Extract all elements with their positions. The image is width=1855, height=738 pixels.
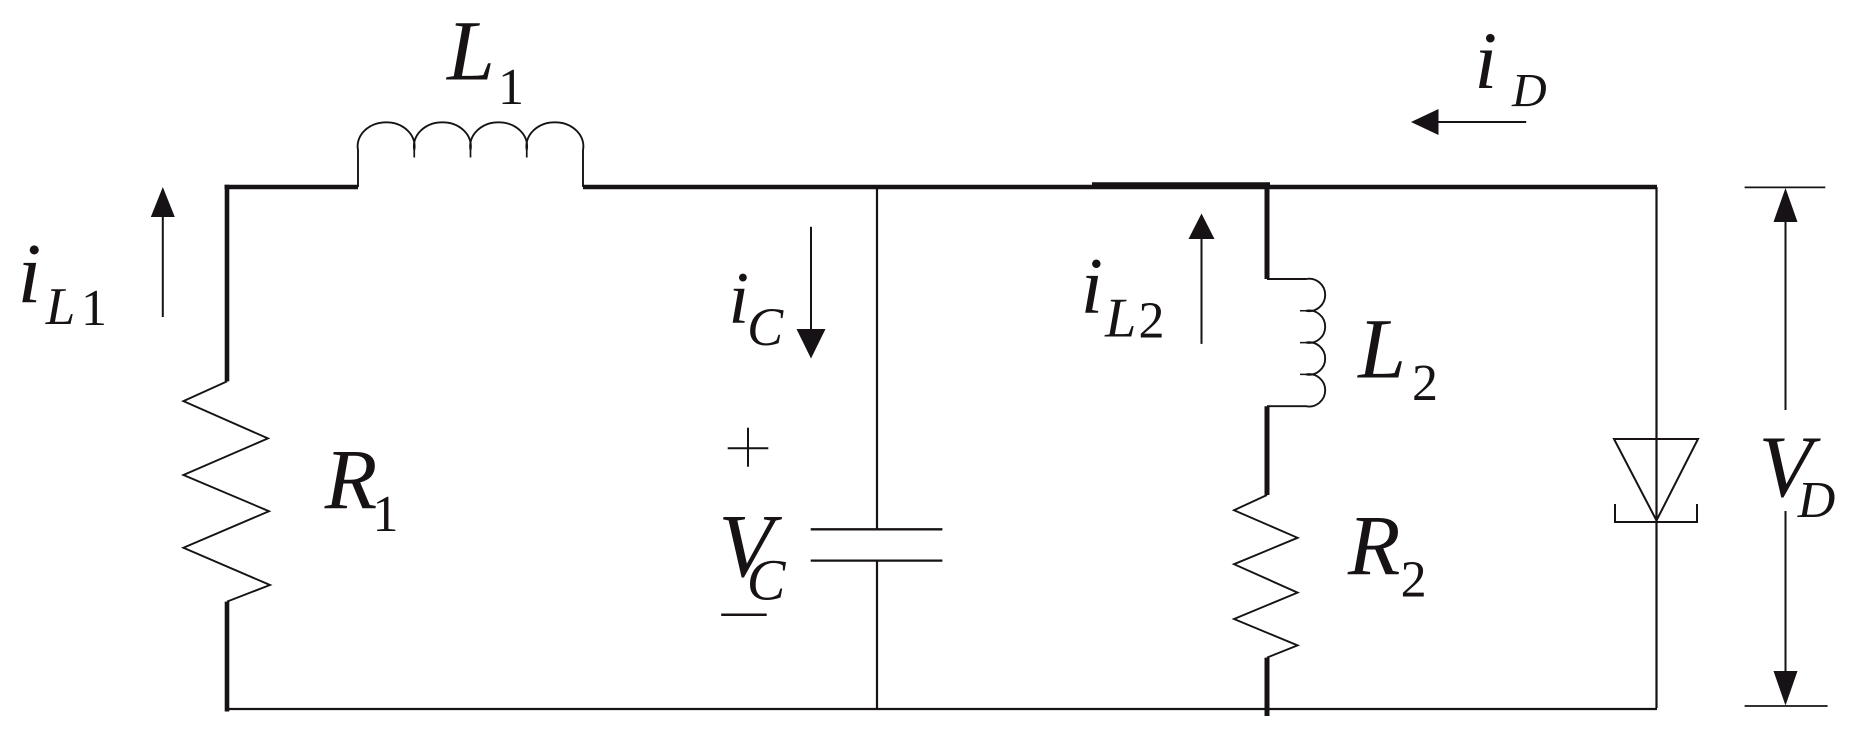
svg-text:1: 1: [498, 59, 524, 116]
svg-text:i: i: [18, 226, 42, 322]
svg-text:C: C: [747, 297, 784, 357]
svg-text:i: i: [729, 258, 750, 340]
svg-text:L: L: [1104, 287, 1136, 349]
svg-text:1: 1: [373, 486, 399, 543]
svg-text:D: D: [1797, 472, 1836, 529]
svg-text:i: i: [1081, 243, 1103, 331]
svg-text:C: C: [747, 548, 787, 613]
svg-text:R: R: [324, 431, 378, 527]
svg-text:D: D: [1511, 65, 1547, 118]
svg-text:L: L: [1356, 300, 1406, 396]
svg-text:L: L: [445, 2, 495, 98]
svg-text:2: 2: [1412, 355, 1438, 412]
svg-text:R: R: [1347, 497, 1401, 593]
svg-text:i: i: [1474, 15, 1497, 106]
svg-text:1: 1: [81, 280, 107, 337]
svg-text:2: 2: [1401, 552, 1427, 609]
svg-text:2: 2: [1139, 293, 1165, 350]
svg-text:L: L: [45, 278, 75, 336]
